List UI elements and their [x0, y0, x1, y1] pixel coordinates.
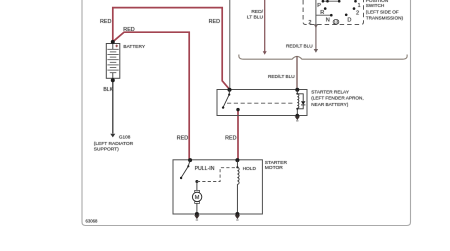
svg-text:BATTERY: BATTERY	[123, 44, 145, 50]
svg-text:RED/LT BLU: RED/LT BLU	[268, 74, 295, 79]
svg-text:13: 13	[334, 19, 339, 24]
svg-text:RED: RED	[209, 19, 220, 25]
svg-text:STARTER: STARTER	[265, 160, 288, 166]
svg-text:(LEFT SIDE OF: (LEFT SIDE OF	[366, 10, 399, 15]
svg-text:PULL-IN: PULL-IN	[195, 166, 215, 172]
svg-text:N: N	[326, 17, 330, 23]
svg-text:RED/LT BLU: RED/LT BLU	[286, 44, 313, 49]
svg-text:STARTER RELAY: STARTER RELAY	[311, 89, 350, 94]
svg-text:HOLD: HOLD	[243, 166, 257, 172]
svg-text:(LEFT FENDER APRON,: (LEFT FENDER APRON,	[311, 96, 364, 101]
svg-text:RED: RED	[225, 136, 236, 142]
svg-text:BLK: BLK	[103, 87, 113, 93]
svg-text:RED: RED	[177, 136, 188, 142]
svg-text:2: 2	[308, 20, 311, 26]
svg-text:RED: RED	[123, 27, 134, 33]
svg-text:63068: 63068	[86, 218, 99, 223]
svg-text:R: R	[320, 10, 324, 16]
svg-text:SWITCH: SWITCH	[366, 3, 385, 8]
svg-text:MOTOR: MOTOR	[265, 165, 284, 171]
svg-text:2: 2	[356, 10, 359, 16]
svg-text:1: 1	[358, 3, 361, 9]
svg-text:RED/: RED/	[251, 9, 263, 15]
svg-text:NEAR BATTERY): NEAR BATTERY)	[311, 102, 349, 107]
svg-text:LT BLU: LT BLU	[247, 14, 264, 20]
svg-text:RED: RED	[100, 19, 111, 25]
svg-text:(LEFT RADIATOR: (LEFT RADIATOR	[94, 141, 134, 147]
svg-text:TRANSMISSION): TRANSMISSION)	[366, 16, 404, 21]
svg-text:G108: G108	[119, 134, 131, 139]
svg-text:M: M	[195, 195, 200, 201]
svg-text:P: P	[317, 3, 321, 9]
svg-text:D: D	[347, 17, 351, 23]
svg-text:SUPPORT): SUPPORT)	[94, 146, 119, 152]
